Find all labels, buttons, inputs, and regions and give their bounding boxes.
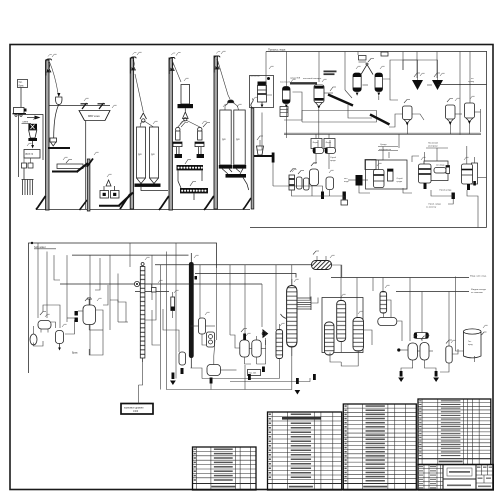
product tank <box>463 329 486 358</box>
to drying line <box>438 78 487 85</box>
line label box <box>248 370 261 376</box>
media vessel D <box>353 56 366 96</box>
svg-text:Soft water: Soft water <box>34 245 46 249</box>
silo discharge line <box>141 187 168 191</box>
fermenter block 2 <box>419 161 450 189</box>
stripper column T3 <box>276 324 283 366</box>
svg-text:прод: прод <box>468 344 473 346</box>
twin outlet boxes <box>22 163 27 168</box>
mixer boxes X1 X2 <box>99 186 133 206</box>
label box: from hopper <box>18 80 28 88</box>
black filter press <box>344 175 368 186</box>
horizontal filter pills <box>313 140 337 162</box>
vessel K <box>465 103 475 124</box>
label: seed material <box>426 142 448 149</box>
silo K2b <box>233 110 246 174</box>
top conveyor line <box>49 105 110 107</box>
auger A2 <box>370 115 390 125</box>
fermenter block 3 <box>462 163 487 190</box>
product spec box <box>121 385 153 414</box>
header drops <box>266 52 470 135</box>
svg-text:1300: 1300 <box>133 411 139 413</box>
heat exchanger HX1 hatched <box>312 251 332 270</box>
band top border <box>29 243 217 373</box>
silo K1b <box>148 127 161 187</box>
svg-text:автоклав: автоклав <box>251 76 261 78</box>
svg-text:Отраб.: Отраб. <box>397 178 404 180</box>
svg-text:Ферм: Ферм <box>326 141 332 144</box>
bucket elevator E3 <box>159 53 175 210</box>
media tank label boxes row <box>311 134 335 149</box>
pedestal stand T <box>254 136 275 186</box>
packed column T2 dark <box>189 253 197 368</box>
spec table D <box>418 399 491 465</box>
filters row small <box>289 163 334 191</box>
spec table A <box>193 447 257 490</box>
svg-text:МВУ конв: МВУ конв <box>88 114 100 118</box>
collecting auger <box>226 174 249 190</box>
lower connecting lines <box>257 108 479 228</box>
granulator vessel <box>28 124 37 149</box>
connecting lines left cluster <box>34 305 104 346</box>
svg-text:среда: среда <box>330 160 337 162</box>
drop lines to bar 2 <box>178 171 181 189</box>
svg-text:материал: материал <box>428 146 439 148</box>
silo K1a <box>135 127 148 187</box>
small feed vessel <box>56 331 64 351</box>
diamond distributor <box>178 112 200 127</box>
main tray column T4 <box>287 279 311 356</box>
svg-text:Жидк. азот. конд.: Жидк. азот. конд. <box>470 276 487 278</box>
Y-feed to silos K2 <box>218 60 239 110</box>
bucket elevator E2 <box>120 53 136 210</box>
roller conveyor bar 1 <box>177 160 204 171</box>
conveyor supports <box>81 103 106 109</box>
screw conveyor box MVU <box>79 111 110 121</box>
twin receivers <box>240 329 261 358</box>
svg-text:среда: среда <box>397 181 404 183</box>
process water header <box>266 51 487 53</box>
sieve feed vessel <box>172 61 193 112</box>
black pins along bottom <box>170 373 316 395</box>
candle filter C2 <box>195 123 210 159</box>
bag filter E <box>361 59 374 75</box>
lambda funnel <box>106 180 111 186</box>
vessel J <box>446 99 456 126</box>
equipment cluster frame <box>19 115 44 178</box>
dryer box BUG-5 <box>24 150 40 159</box>
svg-text:Ферм: Ферм <box>313 141 319 144</box>
bucket elevator E1 <box>36 55 52 211</box>
svg-text:питательная: питательная <box>379 149 391 151</box>
fermenter block 1 <box>366 160 408 189</box>
svg-text:на сжигание: на сжигание <box>471 292 484 294</box>
svg-text:посевной аппарат: посевной аппарат <box>303 77 321 80</box>
candle filter C1 <box>173 123 188 159</box>
twin adsorbers <box>397 336 439 382</box>
tiny position flag labels <box>27 51 488 343</box>
title block <box>418 465 493 491</box>
section bottom border <box>250 227 487 229</box>
standpipe wall W5 <box>243 99 254 210</box>
valve pins bottom <box>321 190 455 209</box>
condenser V1 <box>199 318 206 334</box>
pump station <box>262 329 268 372</box>
svg-text:Жидкие отходы: Жидкие отходы <box>471 289 486 291</box>
drop pipe from conveyor <box>85 121 87 210</box>
svg-text:Отраб.среда: Отраб.среда <box>439 190 452 192</box>
vessel I <box>403 100 413 126</box>
header drop lines <box>38 243 449 390</box>
svg-text:Отраб: Отраб <box>330 157 337 159</box>
second bottom line <box>230 378 310 382</box>
spec table C <box>343 404 416 490</box>
media vessel F <box>375 52 388 100</box>
flange pair <box>75 311 78 316</box>
inoculator vessel C <box>290 71 337 113</box>
receiver tank <box>207 365 221 376</box>
standards rack <box>280 107 288 117</box>
svg-text:Процесс. вода: Процесс. вода <box>268 48 286 52</box>
side vessels of T1 <box>134 252 174 352</box>
bucket elevator E4 <box>204 52 220 211</box>
mill machine M1 <box>13 108 27 117</box>
svg-text:Посевной: Посевной <box>428 142 439 145</box>
screw feeder auger A1 <box>328 87 353 106</box>
extra wires left <box>47 252 126 323</box>
svg-text:хол.вода: хол.вода <box>436 165 445 167</box>
feeder cup under E1 head <box>50 62 62 138</box>
feed box to autoclave <box>250 76 274 108</box>
seed vessel B <box>280 82 291 113</box>
band bottom piping <box>67 265 475 390</box>
label: sreda <box>378 144 398 151</box>
svg-text:посев.апп: посев.апп <box>280 82 291 84</box>
absorber cluster box <box>322 298 364 358</box>
belt feeder F2 <box>52 160 88 173</box>
bucket chain column T1 <box>140 263 145 363</box>
horizontal pill tank <box>38 312 51 333</box>
comb rack <box>22 168 34 195</box>
utility box <box>365 160 376 170</box>
ground line <box>36 209 250 211</box>
spec table B <box>268 412 342 490</box>
short wall W6 <box>80 159 94 212</box>
heater pill with black caps <box>414 333 429 339</box>
svg-text:сушку: сушку <box>468 81 475 83</box>
svg-text:кормовые дрожжи: кормовые дрожжи <box>124 408 144 410</box>
pump P1 <box>30 334 37 345</box>
pump box with circles <box>207 332 215 347</box>
svg-text:БУГ-5: БУГ-5 <box>26 152 34 156</box>
svg-text:Брак: Брак <box>72 352 78 355</box>
V-cup hopper <box>48 138 70 148</box>
svg-text:Среда: Среда <box>380 144 387 146</box>
inter connecting lines top <box>266 60 481 135</box>
svg-text:на очистку: на очистку <box>426 207 437 209</box>
svg-text:Гот.: Гот. <box>468 341 472 343</box>
silo K2a <box>219 110 232 174</box>
header lines <box>60 255 469 291</box>
tube bundle right <box>297 298 311 309</box>
black hopper H <box>432 72 443 90</box>
pellet arrow <box>35 116 41 120</box>
section right border <box>486 52 488 228</box>
reflux pill left of T2 <box>179 352 186 374</box>
polish filter <box>446 340 452 368</box>
side column T5 <box>378 292 397 326</box>
svg-text:Отраб. среда: Отраб. среда <box>428 204 442 206</box>
wire label to mill <box>20 88 22 108</box>
reactor R1 <box>83 298 96 331</box>
distributor to silos K1 <box>135 74 154 127</box>
roller conveyor bar 2 <box>180 182 208 201</box>
black hopper G <box>412 72 423 90</box>
